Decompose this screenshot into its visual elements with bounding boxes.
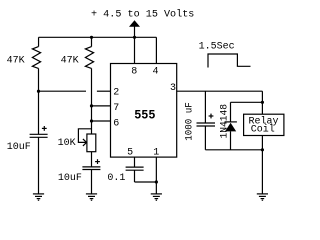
wire pin8 stem [134,37,136,63]
wire relay bottom [261,136,263,194]
ground G1 [33,194,44,200]
junction R2-pin7 [90,104,93,107]
label relay coil [249,115,279,135]
svg-text:47K: 47K [7,55,25,66]
wire C3 to pin1 [135,181,157,183]
svg-text:Coil: Coil [251,124,275,136]
C2 plus mark [95,159,100,164]
junction rail-R2 [90,36,93,39]
wire bottom right bus [205,149,262,151]
capacitor C4 1000uF [197,91,216,150]
svg-text:1000 uF: 1000 uF [185,102,196,141]
svg-text:4: 4 [153,66,159,77]
svg-text:2: 2 [113,87,119,98]
waveform pulse [208,54,251,68]
svg-text:10K: 10K [58,138,76,149]
svg-text:6: 6 [113,118,119,129]
capacitor C3 0.1 (pin 5) [126,157,144,182]
junction C3-pin1 [155,180,158,183]
ground G2 [86,194,97,200]
svg-text:8: 8 [131,66,137,77]
svg-text:3: 3 [170,83,176,94]
C1 plus mark [42,126,47,131]
resistor R1 47K [32,37,40,134]
C4 plus mark [209,114,214,119]
ground G3 [151,194,162,200]
wire diode tee [231,101,263,103]
capacitor C2 10uF (under pot) [82,152,100,194]
svg-text:1.5Sec: 1.5Sec [199,41,235,52]
svg-text:0.1: 0.1 [107,173,125,184]
wire pin2 (R1 to pin 2, hop over R2 lead) [39,90,111,92]
relay coil K1 box [244,114,284,135]
resistor R2 47K [85,37,93,134]
junction pot-pin6 [90,119,93,122]
svg-text:10uF: 10uF [58,173,82,184]
wire pin1 stem [155,157,157,194]
potentiometer R3 10K body [87,134,96,152]
ground G4 [257,194,268,200]
wire pin3 output [177,91,263,114]
diode D1 1N4148 [225,102,237,150]
junction output-diode tee [261,101,264,104]
svg-text:10uF: 10uF [7,142,31,153]
svg-text:1N4148: 1N4148 [219,104,230,139]
wire top rail [39,36,157,38]
junction R1-pin2 [37,90,40,93]
op-amp/timer U1 555 body [111,64,177,158]
svg-text:555: 555 [134,109,155,123]
svg-text:+ 4.5 to 15 Volts: + 4.5 to 15 Volts [91,9,194,21]
wire pin7 (R2 to pin 7) [92,105,111,107]
junction bottom-relay [261,148,264,151]
capacitor C1 10uF [30,134,48,193]
svg-text:1: 1 [153,148,159,159]
wire pin4 stem [155,37,157,63]
svg-text:5: 5 [127,148,133,159]
svg-text:47K: 47K [61,55,79,66]
junction rail-pin8 [133,36,136,39]
potentiometer R3 wiper arrow [78,129,91,146]
power symbol arrow [129,20,140,37]
wire pin6 (pot top to pin 6) [92,120,111,122]
svg-text:7: 7 [113,103,119,114]
